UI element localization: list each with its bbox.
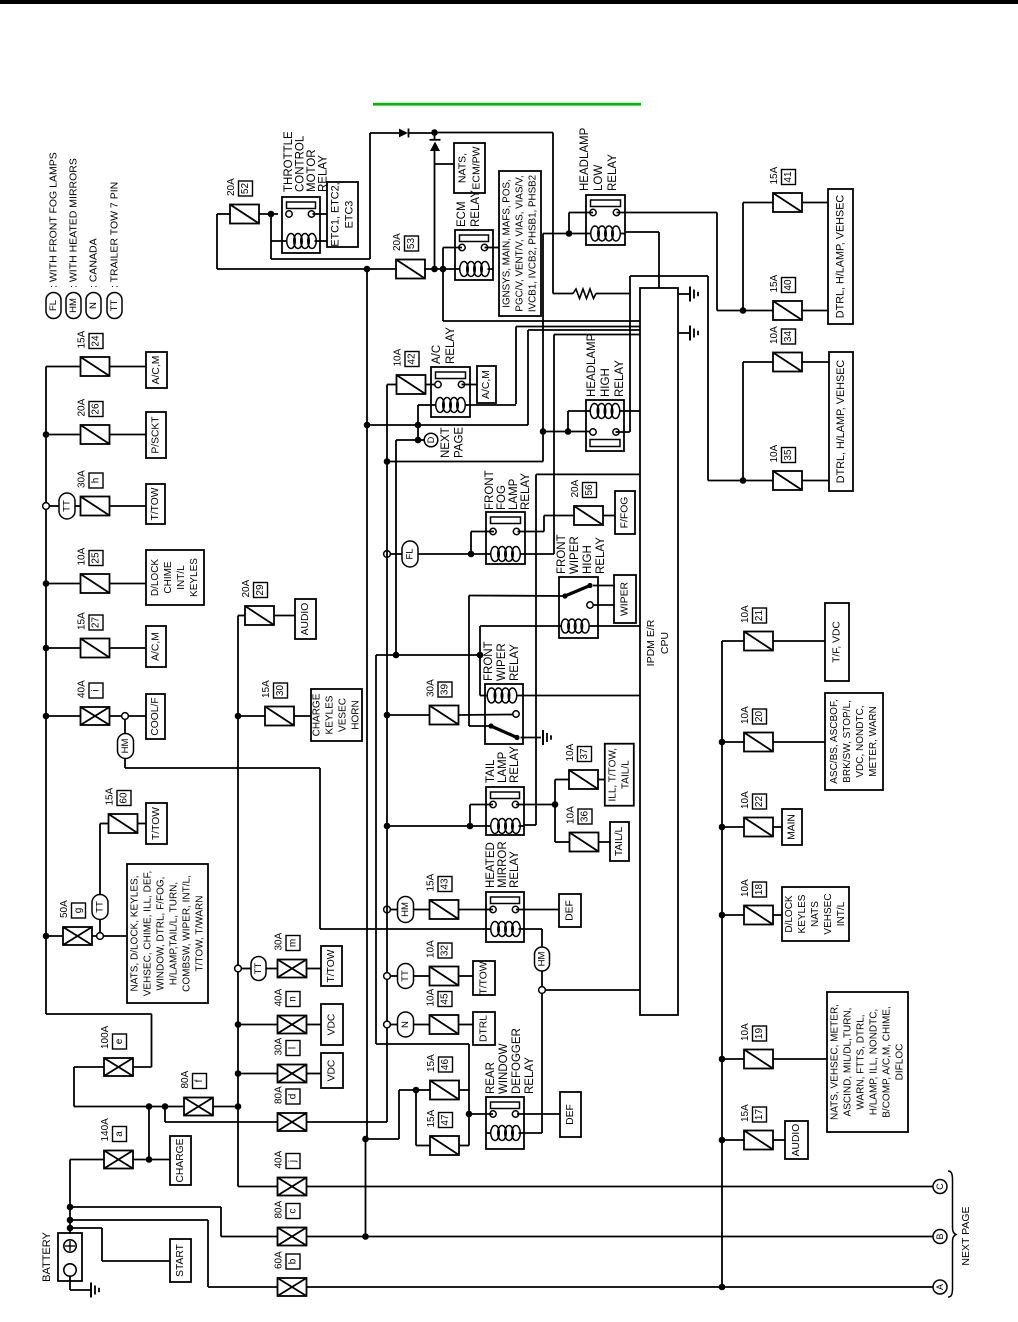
svg-text:53: 53 <box>406 238 417 250</box>
svg-text:F/FOG: F/FOG <box>620 497 631 529</box>
svg-text:15A: 15A <box>261 680 272 698</box>
svg-text:10A: 10A <box>565 743 576 761</box>
svg-text:CPU: CPU <box>659 632 671 654</box>
svg-text:AUDIO: AUDIO <box>791 1124 802 1157</box>
svg-text:A/C,M: A/C,M <box>481 370 492 399</box>
svg-text:D/LOCK: D/LOCK <box>150 559 161 597</box>
svg-text:15A: 15A <box>426 1109 437 1127</box>
svg-text:MOTOR: MOTOR <box>306 149 318 192</box>
svg-text:VEHSEC: VEHSEC <box>823 893 834 934</box>
svg-text:LAMP: LAMP <box>508 478 520 510</box>
svg-text:DEFOGGER: DEFOGGER <box>511 1028 523 1094</box>
svg-text:IVCB1, IVCB2, PHSB1, PHSB2: IVCB1, IVCB2, PHSB1, PHSB2 <box>528 175 539 312</box>
svg-text:N: N <box>88 302 99 309</box>
svg-text:10A: 10A <box>769 326 780 344</box>
svg-text:A/C,M: A/C,M <box>151 356 162 385</box>
svg-text:26: 26 <box>91 403 102 415</box>
svg-text:RELAY: RELAY <box>607 154 619 191</box>
svg-text:COMBSW, WIPER, INT/L,: COMBSW, WIPER, INT/L, <box>182 875 193 992</box>
svg-text:36: 36 <box>580 811 591 823</box>
svg-text:RELAY: RELAY <box>470 190 482 227</box>
svg-text:18: 18 <box>754 884 765 896</box>
svg-text:25: 25 <box>91 552 102 564</box>
svg-text:ILL, T/TOW,: ILL, T/TOW, <box>607 748 618 802</box>
svg-text:FOG: FOG <box>496 485 508 510</box>
svg-text:T/TOW: T/TOW <box>326 949 337 982</box>
svg-text:10A: 10A <box>740 706 751 724</box>
svg-text:VDC: VDC <box>327 1059 338 1081</box>
svg-text:HEATED: HEATED <box>485 842 497 888</box>
svg-text:T/F, VDC: T/F, VDC <box>832 621 843 663</box>
svg-text:CHIME: CHIME <box>163 561 174 594</box>
svg-text:FRONT: FRONT <box>484 470 496 510</box>
svg-text:a: a <box>114 1131 125 1137</box>
svg-text:P/SCKT: P/SCKT <box>151 416 162 454</box>
svg-text:10A: 10A <box>740 1023 751 1041</box>
svg-text:: CANADA: : CANADA <box>88 238 100 288</box>
svg-text:n: n <box>288 996 299 1002</box>
svg-text:DTRL: DTRL <box>479 1015 490 1042</box>
svg-text:40A: 40A <box>274 988 285 1006</box>
svg-text:METER, WARN: METER, WARN <box>868 706 879 777</box>
svg-text:10A: 10A <box>566 806 577 824</box>
svg-text:ECM/PW: ECM/PW <box>471 146 483 189</box>
svg-text:56: 56 <box>584 484 595 496</box>
svg-text:30A: 30A <box>274 932 285 950</box>
svg-text:WIPER: WIPER <box>620 581 631 616</box>
svg-text:20: 20 <box>754 711 765 723</box>
svg-text:TAIL: TAIL <box>485 759 497 783</box>
svg-text:PAGE: PAGE <box>454 427 466 458</box>
svg-text:30A: 30A <box>77 470 88 488</box>
svg-text:B/COMP, A/C,M, CHIME,: B/COMP, A/C,M, CHIME, <box>882 1006 893 1118</box>
svg-text:10A: 10A <box>740 605 751 623</box>
svg-text:20A: 20A <box>392 233 403 251</box>
svg-text:32: 32 <box>440 945 451 957</box>
svg-text:21: 21 <box>754 610 765 622</box>
svg-text:: WITH FRONT FOG LAMPS: : WITH FRONT FOG LAMPS <box>48 152 60 288</box>
svg-text:15A: 15A <box>769 274 780 292</box>
svg-text:FL: FL <box>48 300 59 311</box>
svg-text:MIRROR: MIRROR <box>497 841 509 888</box>
svg-text:60: 60 <box>119 792 130 804</box>
svg-text:D: D <box>426 436 436 443</box>
svg-text:42: 42 <box>407 353 418 365</box>
svg-text:d: d <box>288 1094 299 1100</box>
svg-text:RELAY: RELAY <box>614 360 626 397</box>
svg-text:NATS, D/LOCK, KEYLES,: NATS, D/LOCK, KEYLES, <box>130 876 141 992</box>
svg-text:50A: 50A <box>59 900 70 918</box>
svg-text:HORN: HORN <box>351 700 362 729</box>
svg-text:NEXT PAGE: NEXT PAGE <box>960 1206 972 1265</box>
svg-text:CONTROL: CONTROL <box>295 135 307 192</box>
svg-text:30: 30 <box>275 685 286 697</box>
svg-text:29: 29 <box>255 584 266 596</box>
svg-text:i: i <box>91 689 102 691</box>
svg-text:80A: 80A <box>274 1200 285 1218</box>
svg-text:140A: 140A <box>100 1118 111 1142</box>
svg-text:TAIL/L: TAIL/L <box>620 760 631 789</box>
svg-text:80A: 80A <box>274 1086 285 1104</box>
svg-text:KEYLES: KEYLES <box>797 894 808 933</box>
svg-text:37: 37 <box>579 748 590 760</box>
svg-text:WIPER: WIPER <box>496 643 508 681</box>
svg-text:T/TOW: T/TOW <box>479 961 490 994</box>
svg-text:15A: 15A <box>426 1054 437 1072</box>
svg-text:RELAY: RELAY <box>509 851 521 888</box>
svg-text:T/TOW: T/TOW <box>150 487 161 520</box>
svg-text:A/C: A/C <box>431 345 443 364</box>
svg-text:30A: 30A <box>274 1037 285 1055</box>
svg-text:WIPER: WIPER <box>569 536 581 574</box>
svg-text:45: 45 <box>440 993 451 1005</box>
svg-text:30A: 30A <box>426 679 437 697</box>
svg-text:C: C <box>935 1183 945 1190</box>
svg-text:24: 24 <box>91 335 102 347</box>
svg-text:COOL/F: COOL/F <box>150 697 161 735</box>
svg-text:KEYLES: KEYLES <box>189 558 200 597</box>
svg-text:c: c <box>288 1209 299 1214</box>
svg-text:VDC: VDC <box>327 1013 338 1035</box>
svg-text:FL: FL <box>405 548 416 559</box>
svg-text:ETC3: ETC3 <box>344 201 356 229</box>
svg-text:RELAY: RELAY <box>595 537 607 574</box>
svg-text:52: 52 <box>240 183 251 195</box>
svg-text:19: 19 <box>754 1028 765 1040</box>
svg-text:27: 27 <box>91 617 102 629</box>
svg-text:INT/L: INT/L <box>176 565 187 590</box>
svg-text:VDC, NONDTC,: VDC, NONDTC, <box>855 705 866 777</box>
svg-text:40: 40 <box>783 279 794 291</box>
svg-text:100A: 100A <box>100 1025 111 1049</box>
svg-text:20A: 20A <box>570 479 581 497</box>
svg-text:15A: 15A <box>77 612 88 630</box>
svg-text:g: g <box>73 908 84 914</box>
svg-text:AUDIO: AUDIO <box>300 603 311 636</box>
svg-text:20A: 20A <box>241 579 252 597</box>
svg-text:CHARGE: CHARGE <box>175 1138 186 1182</box>
svg-text:HIGH: HIGH <box>582 545 594 574</box>
svg-text:HM: HM <box>120 739 131 754</box>
svg-text:43: 43 <box>440 878 451 890</box>
svg-text:IPDM E/R: IPDM E/R <box>645 619 657 666</box>
svg-text:WINDOW: WINDOW <box>498 1043 510 1094</box>
svg-text:10A: 10A <box>393 348 404 366</box>
svg-text:m: m <box>288 939 299 947</box>
svg-text:TAIL/L: TAIL/L <box>614 827 625 857</box>
svg-text:FRONT: FRONT <box>556 534 568 574</box>
svg-text:TT: TT <box>95 901 106 913</box>
svg-text:A/C,M: A/C,M <box>151 632 162 661</box>
svg-text:VEHSEC, CHIME, ILL, DEF,: VEHSEC, CHIME, ILL, DEF, <box>143 871 154 997</box>
svg-text:b: b <box>288 1258 299 1264</box>
svg-text:TT: TT <box>109 300 120 312</box>
svg-text:15A: 15A <box>426 873 437 891</box>
svg-text:WINDOW, DTRL, F/FOG,: WINDOW, DTRL, F/FOG, <box>156 877 167 991</box>
svg-text:: TRAILER TOW 7 PIN: : TRAILER TOW 7 PIN <box>109 182 121 288</box>
svg-text:THROTTLE: THROTTLE <box>283 131 295 192</box>
svg-text:DTRL, H/LAMP, VEHSEC: DTRL, H/LAMP, VEHSEC <box>835 195 847 319</box>
svg-text:f: f <box>194 1079 205 1082</box>
svg-text:HIGH: HIGH <box>600 368 612 397</box>
svg-text:NATS: NATS <box>810 901 821 927</box>
svg-text:DIFLOC: DIFLOC <box>895 1044 906 1081</box>
svg-text:INT/L: INT/L <box>836 901 847 926</box>
svg-text:10A: 10A <box>740 791 751 809</box>
svg-text:WARN, FTTS, DTRL,: WARN, FTTS, DTRL, <box>856 1014 867 1109</box>
svg-text:DEF: DEF <box>565 1104 576 1125</box>
svg-text:20A: 20A <box>226 178 237 196</box>
svg-text:NATS,: NATS, <box>457 153 469 183</box>
svg-text:ECM: ECM <box>456 201 468 227</box>
svg-text:T/TOW: T/TOW <box>151 807 162 840</box>
svg-text:10A: 10A <box>769 444 780 462</box>
svg-text:HM: HM <box>68 298 79 313</box>
svg-text:VESEC: VESEC <box>338 698 349 732</box>
svg-text:RELAY: RELAY <box>445 327 457 364</box>
svg-text:A: A <box>935 1284 945 1290</box>
svg-text:10A: 10A <box>426 988 437 1006</box>
svg-text:CHARGE: CHARGE <box>312 693 323 736</box>
svg-text:HM: HM <box>400 902 411 917</box>
svg-text:39: 39 <box>440 684 451 696</box>
svg-text:T/TOW, T/WARN: T/TOW, T/WARN <box>195 896 206 972</box>
svg-text:FRONT: FRONT <box>483 641 495 681</box>
svg-text:35: 35 <box>783 449 794 461</box>
svg-text:10A: 10A <box>426 940 437 958</box>
svg-text:DTRL, H/LAMP, VEHSEC: DTRL, H/LAMP, VEHSEC <box>835 360 847 484</box>
svg-text:j: j <box>288 1160 299 1163</box>
svg-text:46: 46 <box>440 1059 451 1071</box>
svg-text:MAIN: MAIN <box>787 814 798 840</box>
svg-text:10A: 10A <box>740 879 751 897</box>
svg-text:RELAY: RELAY <box>509 746 521 783</box>
svg-text:ETC1, ETC2,: ETC1, ETC2, <box>330 182 342 246</box>
svg-text:N: N <box>400 1021 411 1028</box>
svg-text:h: h <box>91 478 102 484</box>
svg-text:DEF: DEF <box>565 900 576 921</box>
svg-text:TT: TT <box>62 500 73 512</box>
svg-text:H/LAMP, ILL, NONDTC,: H/LAMP, ILL, NONDTC, <box>869 1009 880 1116</box>
svg-text:40A: 40A <box>274 1150 285 1168</box>
svg-text:LOW: LOW <box>593 165 605 191</box>
svg-text:START: START <box>175 1243 186 1277</box>
svg-text:HEADLAMP: HEADLAMP <box>586 333 598 397</box>
svg-text:BATTERY: BATTERY <box>41 1231 53 1281</box>
svg-text:ASC/BS, ASCBOF,: ASC/BS, ASCBOF, <box>829 699 840 783</box>
svg-text:LAMP: LAMP <box>497 751 509 783</box>
svg-text:B: B <box>935 1233 945 1239</box>
svg-text:15A: 15A <box>77 330 88 348</box>
svg-text:HEADLAMP: HEADLAMP <box>579 127 591 191</box>
svg-text:60A: 60A <box>274 1251 285 1269</box>
svg-text:IGNSYS, MAIN, MAFS, POS,: IGNSYS, MAIN, MAFS, POS, <box>502 179 513 307</box>
svg-text:NEXT: NEXT <box>440 427 452 458</box>
svg-text:l: l <box>288 1047 299 1049</box>
svg-text:BRK/SW, STOP/L,: BRK/SW, STOP/L, <box>842 700 853 783</box>
svg-text:RELAY: RELAY <box>524 1057 536 1094</box>
svg-text:15A: 15A <box>740 1104 751 1122</box>
svg-text:ASCIND, MIL/DL,TURN,: ASCIND, MIL/DL,TURN, <box>843 1008 854 1117</box>
svg-text:KEYLES: KEYLES <box>325 695 336 734</box>
svg-text:17: 17 <box>754 1109 765 1121</box>
svg-text:34: 34 <box>783 331 794 343</box>
svg-text:RELAY: RELAY <box>520 473 532 510</box>
svg-text:HM: HM <box>537 952 548 967</box>
svg-text:TT: TT <box>253 963 264 975</box>
svg-text:H/LAMP,TAIL/L, TURN,: H/LAMP,TAIL/L, TURN, <box>169 882 180 985</box>
svg-text:47: 47 <box>440 1114 451 1126</box>
svg-text:NATS, VEHSEC, METER,: NATS, VEHSEC, METER, <box>830 1004 841 1120</box>
svg-text:TT: TT <box>400 970 411 982</box>
svg-text:22: 22 <box>754 796 765 808</box>
svg-text:: WITH HEATED MIRRORS: : WITH HEATED MIRRORS <box>68 158 80 288</box>
svg-text:40A: 40A <box>77 680 88 698</box>
svg-text:D/LOCK: D/LOCK <box>784 895 795 933</box>
svg-text:RELAY: RELAY <box>509 644 521 681</box>
svg-text:80A: 80A <box>180 1070 191 1088</box>
svg-text:REAR: REAR <box>485 1062 497 1094</box>
svg-text:41: 41 <box>783 171 794 183</box>
svg-text:20A: 20A <box>77 398 88 416</box>
svg-text:10A: 10A <box>77 547 88 565</box>
svg-text:15A: 15A <box>769 166 780 184</box>
svg-text:15A: 15A <box>105 787 116 805</box>
svg-text:e: e <box>114 1038 125 1044</box>
svg-text:PGC/V, VENT/V, VIAS, VIAS/V,: PGC/V, VENT/V, VIAS, VIAS/V, <box>515 175 526 311</box>
